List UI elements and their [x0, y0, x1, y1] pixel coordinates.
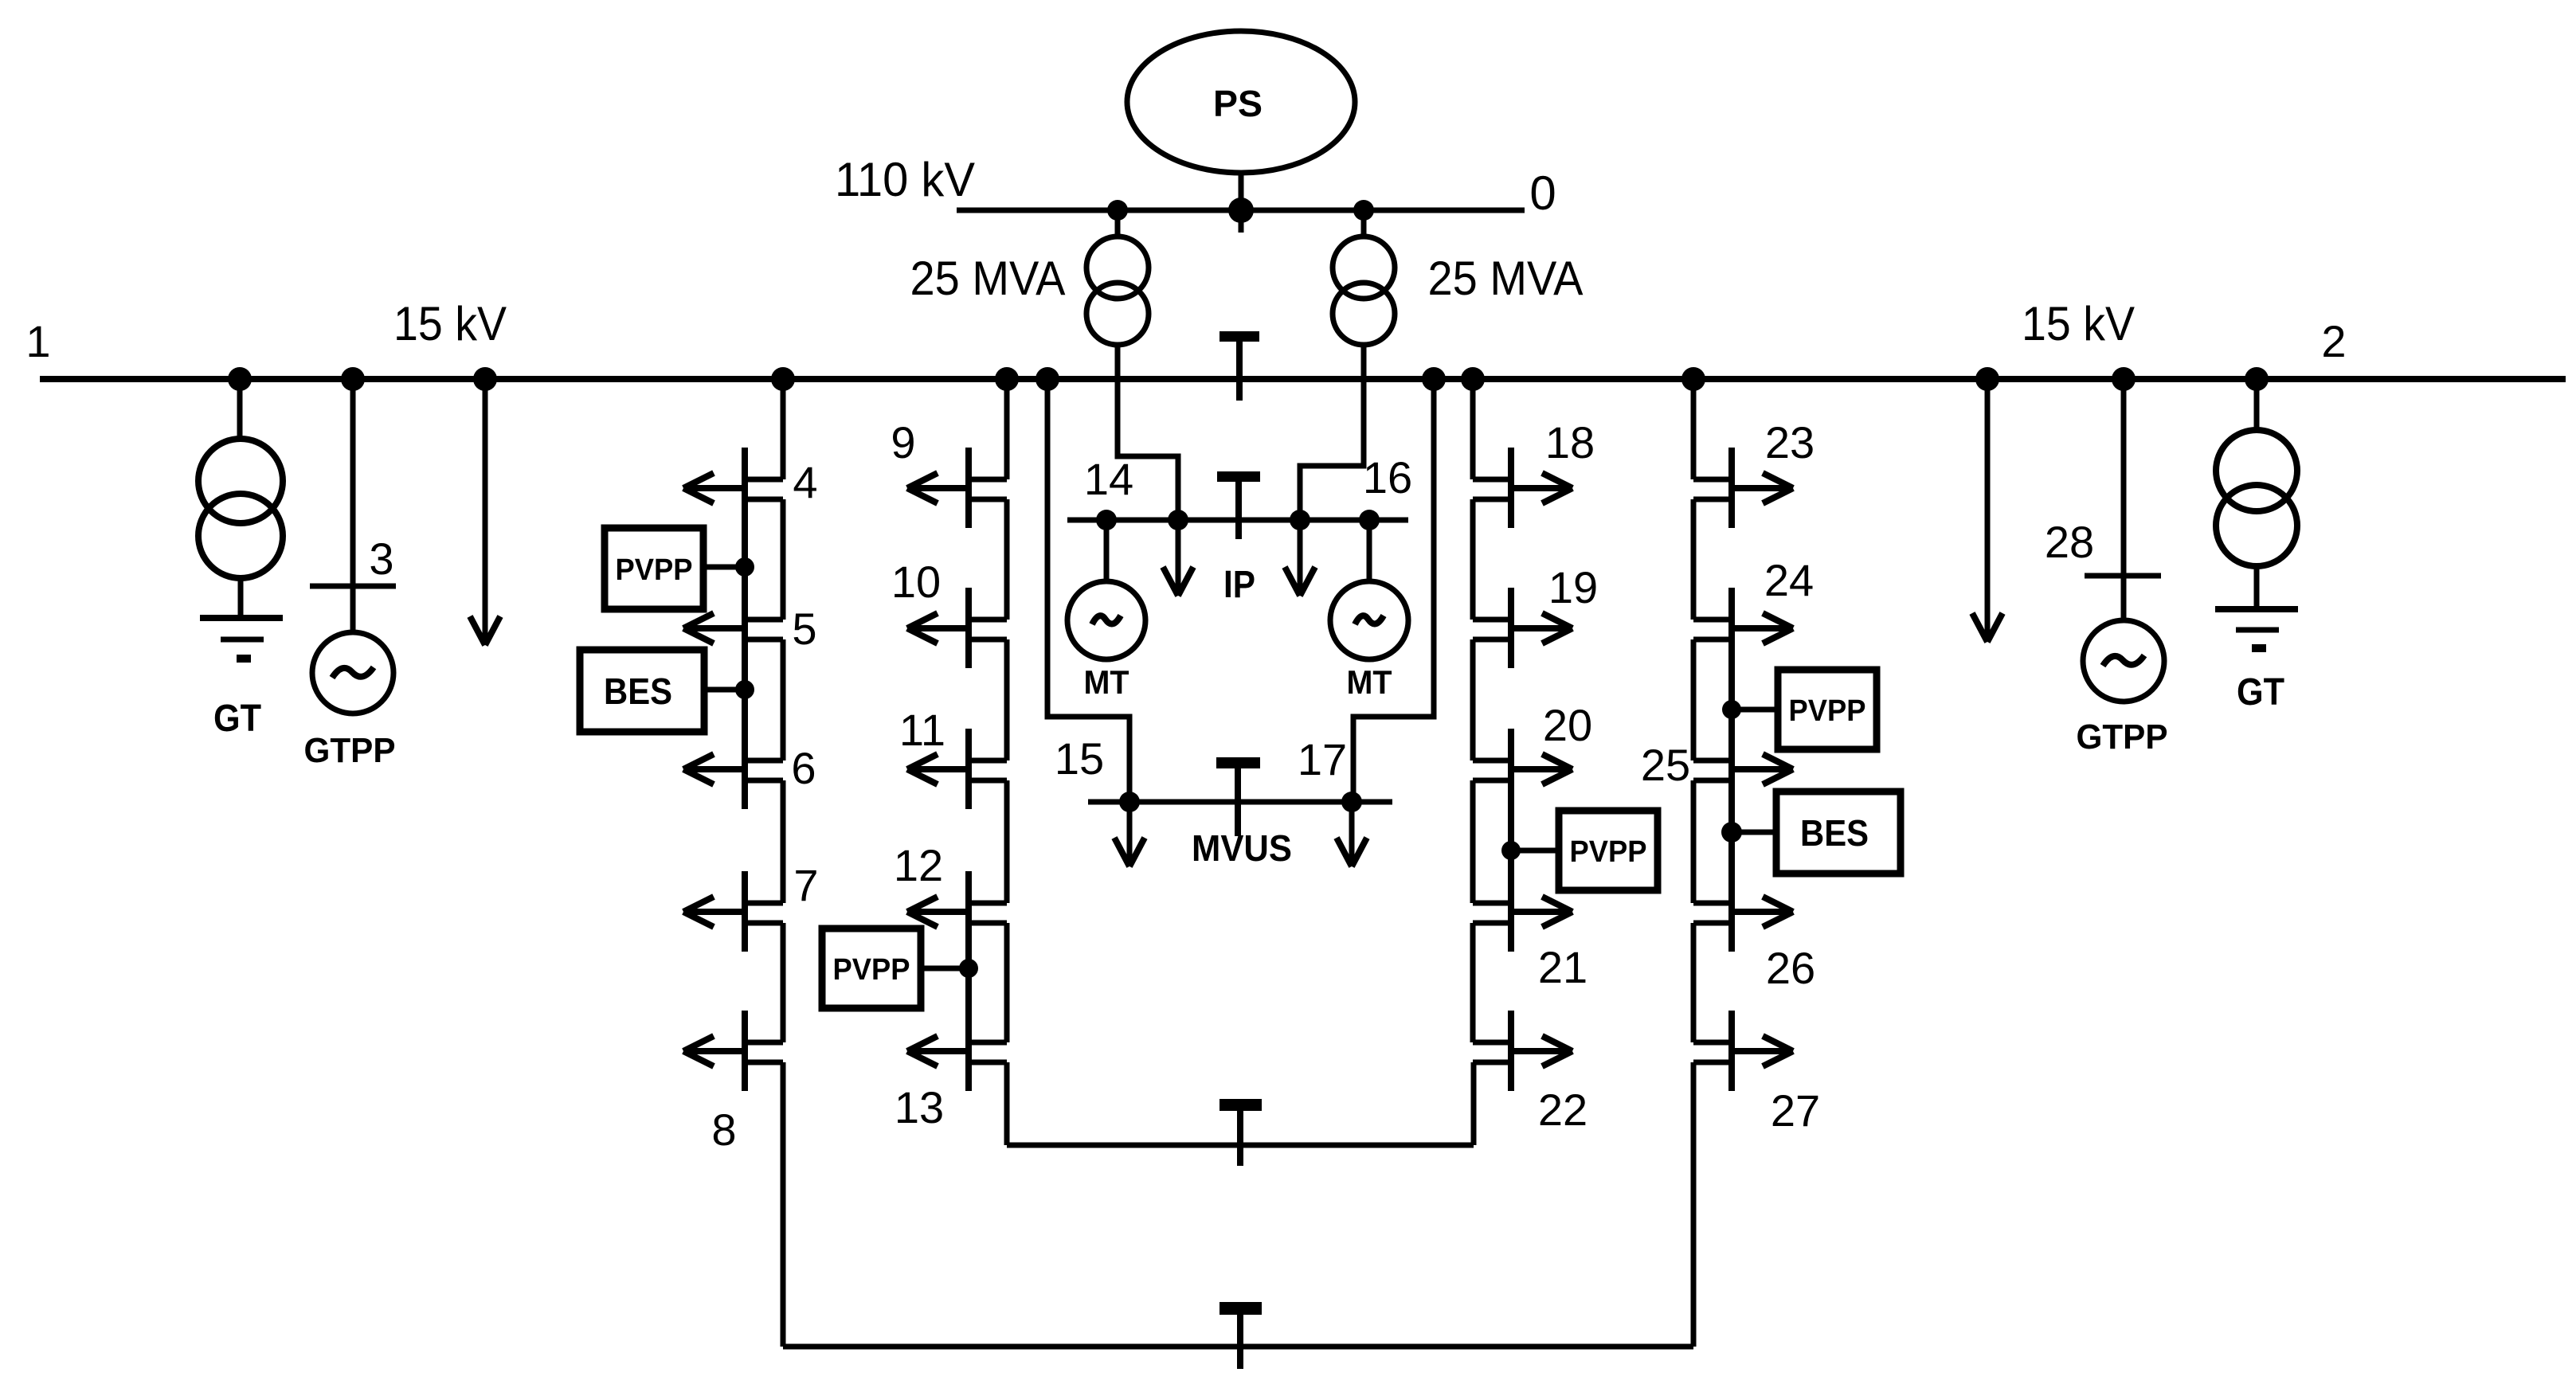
node 26 switch and load arrow: [1693, 871, 1793, 952]
wire node 24 to node 25: [1691, 639, 1697, 760]
wire node 25 to node 26: [1691, 780, 1697, 903]
label node 15: [1055, 733, 1104, 784]
svg-text:6: 6: [791, 743, 816, 793]
junction dot BES feeder A: [735, 680, 754, 699]
wire node 18 to node 19: [1470, 499, 1476, 620]
node 22 switch and load arrow: [1473, 1011, 1572, 1091]
wire feeder C from bus to node 18: [1470, 379, 1476, 479]
junction dot MVUS left feeder: [1035, 367, 1059, 391]
node 13 switch and load arrow: [907, 1011, 1007, 1091]
svg-text:PVPP: PVPP: [1789, 694, 1866, 728]
svg-text:27: 27: [1771, 1085, 1820, 1136]
label node 19: [1548, 562, 1598, 612]
label node 7: [793, 860, 818, 910]
node 10 switch and load arrow: [907, 588, 1007, 668]
junction dot feeder B: [995, 367, 1019, 391]
svg-text:MVUS: MVUS: [1192, 827, 1292, 869]
wire node 10 to node 11: [1004, 639, 1010, 760]
load arrow node 17: [1337, 802, 1367, 866]
bar link node 5-6 (BES tap): [742, 668, 748, 729]
svg-text:26: 26: [1766, 943, 1815, 993]
power source PS (ellipse): [1127, 31, 1355, 173]
label GTPP left: [304, 731, 396, 770]
label MT left: [1084, 663, 1129, 701]
junction dot BES feeder D: [1721, 822, 1742, 843]
svg-text:20: 20: [1543, 700, 1592, 750]
node 19 switch and load arrow: [1473, 588, 1572, 668]
junction dot MT right: [1359, 510, 1380, 530]
wire node 21 to node 22: [1470, 923, 1476, 1042]
wire bus to node 15: [1047, 379, 1129, 802]
label 25 MVA left: [910, 252, 1066, 305]
svg-text:24: 24: [1764, 555, 1814, 605]
wire node 9 to node 10: [1004, 499, 1010, 620]
svg-text:PVPP: PVPP: [1570, 835, 1647, 869]
wire node 3 with crossbar: [310, 379, 396, 632]
junction dot IP arrow left: [1168, 510, 1188, 530]
node 23 switch and load arrow: [1693, 448, 1793, 528]
wire node 5 to node 6: [781, 639, 786, 760]
load arrow IP left: [1163, 520, 1193, 596]
svg-text:BES: BES: [604, 671, 672, 712]
label 15 kV right: [2022, 297, 2135, 350]
junction dot GT right: [2245, 367, 2269, 391]
junction dot feeder C: [1461, 367, 1485, 391]
svg-text:5: 5: [792, 604, 816, 654]
MVUS bus (nodes 15-17): [1088, 800, 1392, 805]
wire T1 to node 14: [1118, 379, 1178, 520]
label node 11: [899, 705, 945, 755]
node 4 switch and load arrow: [683, 448, 783, 528]
micro turbine MT left: [1067, 520, 1145, 659]
wire BES to feeder D bar: [1732, 830, 1776, 835]
junction dot MT left: [1096, 510, 1117, 530]
svg-text:18: 18: [1545, 417, 1595, 467]
svg-text:15 kV: 15 kV: [393, 297, 507, 350]
PVPP box feeder B: [822, 929, 921, 1008]
label node 21: [1538, 942, 1587, 992]
wire bus to node 17: [1353, 379, 1434, 802]
svg-text:PVPP: PVPP: [616, 553, 693, 587]
svg-text:10: 10: [891, 557, 941, 607]
wire node 12 to node 13: [1004, 923, 1010, 1042]
wire node 4 to node 5: [781, 499, 786, 620]
junction dot 110kV bus left: [1107, 200, 1128, 221]
svg-text:23: 23: [1765, 417, 1815, 467]
label node 17: [1298, 734, 1347, 784]
15 kV main bus (nodes 1-2): [40, 376, 2566, 382]
ground symbol GT left: [200, 618, 283, 663]
label node 22: [1538, 1085, 1587, 1135]
open tie switch IP bus: [1217, 471, 1260, 539]
label node 12: [894, 840, 943, 890]
node 12 switch and load arrow: [907, 871, 1007, 952]
BES box feeder D: [1776, 792, 1901, 874]
svg-text:GTPP: GTPP: [304, 731, 396, 770]
label node 4: [793, 457, 817, 507]
node 20 switch and load arrow: [1473, 729, 1572, 809]
generator GTPP left: [312, 632, 393, 714]
tie line node 8 to node 27: [783, 1344, 1693, 1350]
label node 8: [711, 1105, 736, 1155]
junction dot 110kV bus right: [1353, 200, 1374, 221]
node 11 switch and load arrow: [907, 729, 1007, 809]
IP bus (nodes 14-16): [1067, 518, 1408, 523]
svg-text:15: 15: [1055, 733, 1104, 784]
label GTPP right: [2077, 717, 2168, 757]
svg-text:9: 9: [891, 417, 915, 467]
label GT left: [213, 698, 261, 740]
wire T2 to node 16: [1300, 379, 1364, 520]
label node 13: [895, 1082, 944, 1132]
PVPP box feeder A: [605, 528, 703, 609]
label 110 kV: [835, 153, 975, 206]
label node 9: [891, 417, 915, 467]
bar link node 4-5 (PVPP tap): [742, 528, 748, 588]
wire node 11 to node 12: [1004, 780, 1010, 903]
label node 27: [1771, 1085, 1820, 1136]
svg-text:PS: PS: [1213, 83, 1263, 124]
label node 28: [2045, 517, 2094, 567]
svg-text:GT: GT: [2237, 671, 2284, 714]
node 8 switch and load arrow: [683, 1011, 783, 1091]
svg-text:25: 25: [1641, 740, 1690, 790]
load arrow IP right: [1285, 520, 1315, 596]
svg-text:MT: MT: [1347, 663, 1392, 701]
wire feeder B from bus to node 9: [1004, 379, 1010, 479]
node 25 switch and load arrow: [1693, 729, 1793, 809]
label node 5: [792, 604, 816, 654]
label node 23: [1765, 417, 1815, 467]
junction dot feeder A: [771, 367, 795, 391]
svg-text:MT: MT: [1084, 663, 1129, 701]
svg-text:14: 14: [1084, 454, 1133, 504]
label 25 MVA right: [1428, 252, 1584, 305]
svg-text:12: 12: [894, 840, 943, 890]
wire feeder D from bus to node 23: [1691, 379, 1697, 479]
junction dot MVUS right feeder: [1422, 367, 1446, 391]
open tie switch MVUS bus: [1216, 757, 1260, 836]
label MT right: [1347, 663, 1392, 701]
ground symbol GT right: [2215, 609, 2298, 652]
open tie switch 13-22: [1219, 1099, 1262, 1166]
wire PVPP to feeder C bar: [1511, 848, 1560, 854]
node 6 switch and load arrow: [683, 729, 783, 809]
wire node 7 to node 8: [781, 923, 786, 1042]
label node 6: [791, 743, 816, 793]
svg-text:8: 8: [711, 1105, 736, 1155]
tie line node 13 to node 22: [1007, 1143, 1474, 1148]
label GT right: [2237, 671, 2284, 714]
wire node 23 to node 24: [1691, 499, 1697, 620]
wire PS to 110 kV bus: [1239, 173, 1244, 233]
open tie switch 8-27: [1219, 1302, 1262, 1369]
junction dot PVPP feeder A: [735, 557, 754, 577]
bar link node 25-26 (BES tap): [1728, 809, 1735, 871]
wire feeder B down from node 13: [1004, 1062, 1010, 1145]
node 27 switch and load arrow: [1693, 1011, 1793, 1091]
label node 10: [891, 557, 941, 607]
load arrow bus 1: [470, 379, 500, 645]
wire feeder C down from node 22: [1471, 1062, 1477, 1145]
label node 20: [1543, 700, 1592, 750]
node 21 switch and load arrow: [1473, 871, 1572, 952]
svg-text:4: 4: [793, 457, 817, 507]
svg-text:GTPP: GTPP: [2077, 717, 2168, 757]
junction dot PVPP feeder C: [1501, 841, 1521, 860]
label MVUS: [1192, 827, 1292, 869]
svg-text:110 kV: 110 kV: [835, 153, 975, 206]
bar link node 20-21 (PVPP tap): [1508, 809, 1514, 871]
svg-text:BES: BES: [1800, 812, 1869, 854]
grid transformer GT right: [2216, 379, 2297, 609]
node 7 switch and load arrow: [683, 871, 783, 952]
bar link node 12-13 (PVPP tap): [965, 952, 972, 1011]
label node 1: [25, 316, 50, 366]
label node 16: [1363, 452, 1412, 502]
svg-text:16: 16: [1363, 452, 1412, 502]
transformer T2 25 MVA: [1333, 210, 1395, 379]
label node 26: [1766, 943, 1815, 993]
wire BES to feeder A bar: [707, 687, 745, 693]
wire node 6 to node 7: [781, 780, 786, 903]
generator GTPP right: [2083, 620, 2164, 702]
label node 18: [1545, 417, 1595, 467]
110 kV bus (node 0): [957, 208, 1525, 213]
svg-text:11: 11: [899, 705, 945, 755]
junction dot load arrow bus 1: [473, 367, 497, 391]
grid transformer GT left: [198, 379, 283, 618]
svg-text:17: 17: [1298, 734, 1347, 784]
svg-text:28: 28: [2045, 517, 2094, 567]
svg-text:1: 1: [25, 316, 50, 366]
wire node 20 to node 21: [1470, 780, 1476, 903]
transformer T1 25 MVA: [1086, 210, 1149, 379]
label 15 kV left: [393, 297, 507, 350]
PVPP box feeder C: [1559, 811, 1658, 890]
load arrow bus 2: [1972, 379, 2002, 642]
micro turbine MT right: [1330, 520, 1408, 659]
wire node 19 to node 20: [1470, 639, 1476, 760]
wire PVPP to feeder D bar: [1732, 707, 1780, 713]
wire node 28 with crossbar: [2085, 379, 2161, 620]
junction dot 110kV bus center: [1228, 197, 1254, 223]
wire PVPP to feeder A bar: [701, 565, 745, 570]
node 24 switch and load arrow: [1693, 588, 1793, 668]
PVPP box feeder D: [1778, 670, 1877, 749]
svg-text:IP: IP: [1223, 564, 1255, 606]
bar link node 24-25 (PVPP tap): [1728, 668, 1735, 729]
wire node 26 to node 27: [1691, 923, 1697, 1042]
junction dot GTPP right (node 28): [2112, 367, 2136, 391]
wire feeder D down from node 27: [1691, 1062, 1697, 1347]
junction dot GT left: [228, 367, 252, 391]
svg-text:GT: GT: [213, 698, 261, 740]
wire feeder A down from node 8: [781, 1062, 786, 1347]
load arrow node 15: [1114, 802, 1145, 866]
svg-text:13: 13: [895, 1082, 944, 1132]
svg-text:25 MVA: 25 MVA: [1428, 252, 1584, 305]
svg-text:2: 2: [2321, 316, 2346, 366]
label node 25: [1641, 740, 1690, 790]
junction dot GTPP left (node 3): [341, 367, 365, 391]
label node 3: [369, 534, 393, 584]
label node 0: [1529, 166, 1556, 220]
label node 14: [1084, 454, 1133, 504]
svg-text:3: 3: [369, 534, 393, 584]
open tie switch between transformers: [1219, 331, 1259, 401]
node 5 switch and load arrow: [683, 588, 783, 668]
BES box feeder A: [580, 650, 704, 732]
label node 2: [2321, 316, 2346, 366]
junction dot PVPP feeder D: [1722, 700, 1741, 719]
svg-text:22: 22: [1538, 1085, 1587, 1135]
node 9 switch and load arrow: [907, 448, 1007, 528]
svg-text:15 kV: 15 kV: [2022, 297, 2135, 350]
junction dot node 15: [1119, 792, 1140, 812]
junction dot IP arrow right: [1290, 510, 1310, 530]
wire feeder A from bus to node 4: [781, 379, 786, 479]
junction dot PVPP feeder B: [959, 959, 978, 978]
label node 24: [1764, 555, 1814, 605]
svg-text:0: 0: [1529, 166, 1556, 220]
junction dot load arrow bus 2: [1975, 367, 1999, 391]
junction dot node 17: [1341, 792, 1362, 812]
svg-text:PVPP: PVPP: [833, 953, 910, 987]
junction dot feeder D: [1681, 367, 1705, 391]
svg-text:19: 19: [1548, 562, 1598, 612]
svg-text:21: 21: [1538, 942, 1587, 992]
svg-text:7: 7: [793, 860, 818, 910]
svg-text:25 MVA: 25 MVA: [910, 252, 1066, 305]
label IP: [1223, 564, 1255, 606]
node 18 switch and load arrow: [1473, 448, 1572, 528]
wire PVPP to feeder B bar: [920, 966, 969, 972]
